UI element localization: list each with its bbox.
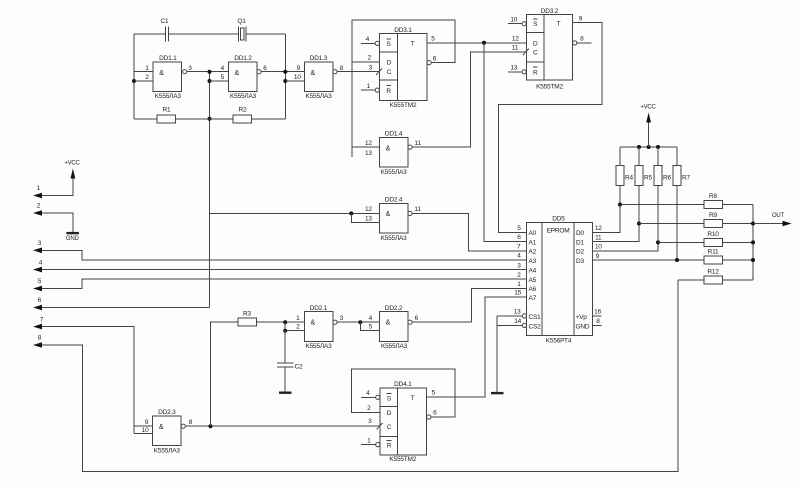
svg-text:5: 5	[38, 278, 42, 285]
svg-text:+VCC: +VCC	[640, 105, 656, 111]
svg-text:A0: A0	[529, 230, 537, 237]
wire right rail node	[283, 34, 304, 119]
svg-text:OUT: OUT	[772, 213, 785, 219]
pin 1 R input DD3.1	[361, 83, 379, 92]
svg-text:&: &	[386, 319, 391, 326]
pin 3 C input DD4.1	[368, 418, 382, 429]
svg-text:R8: R8	[709, 193, 717, 200]
svg-text:1: 1	[296, 315, 300, 322]
wire node A1: DD3.1 Q to EPROM A1	[484, 43, 527, 242]
svg-text:&: &	[386, 145, 391, 152]
wire DD2.3 output 8 to DD4.1 C	[185, 424, 380, 428]
svg-text:R2: R2	[239, 107, 247, 114]
svg-text:2: 2	[517, 272, 521, 279]
wire oscillator bottom rail	[134, 118, 285, 120]
wire DD4.1 output 5 to EPROM A7	[427, 297, 527, 397]
svg-text:9: 9	[297, 65, 301, 72]
svg-text:5: 5	[517, 225, 521, 232]
svg-text:4: 4	[221, 65, 225, 72]
pin 2 D input DD4.1	[367, 405, 371, 412]
pin 10 S input DD3.2	[508, 16, 526, 25]
svg-text:C1: C1	[161, 18, 169, 25]
connector pin 1 to +VCC	[33, 161, 81, 199]
svg-text:R6: R6	[663, 175, 671, 182]
svg-text:15: 15	[514, 290, 521, 297]
svg-text:12: 12	[365, 206, 372, 213]
svg-text:R9: R9	[709, 212, 717, 219]
svg-text:C: C	[387, 424, 392, 431]
wire R3 to DD2.1 inputs	[257, 320, 305, 333]
svg-text:9: 9	[145, 419, 149, 426]
svg-text:DD5: DD5	[552, 216, 565, 223]
resistor R9 row	[639, 212, 753, 228]
svg-text:4: 4	[369, 315, 373, 322]
svg-text:A2: A2	[529, 249, 537, 256]
svg-text:D2: D2	[576, 249, 584, 256]
svg-text:C2: C2	[295, 364, 303, 371]
svg-text:8: 8	[580, 36, 584, 43]
svg-text:A7: A7	[529, 295, 537, 302]
svg-text:CS1: CS1	[529, 314, 542, 321]
NAND gate DD1.1	[145, 55, 192, 100]
svg-text:&: &	[159, 424, 164, 431]
NAND gate DD2.1	[296, 305, 344, 350]
wire EPROM D1 (pin 11) to R5/R9 node	[593, 185, 642, 241]
svg-text:DD1.4: DD1.4	[385, 130, 403, 137]
connector pin 3 wire to EPROM A3	[33, 240, 527, 260]
svg-text:D: D	[387, 60, 392, 67]
svg-text:DD1.3: DD1.3	[310, 55, 328, 62]
svg-text:DD1.2: DD1.2	[234, 55, 252, 62]
svg-text:A3: A3	[529, 258, 537, 265]
svg-text:DD4.1: DD4.1	[394, 381, 412, 388]
svg-text:T: T	[411, 41, 415, 48]
svg-text:7: 7	[40, 316, 44, 323]
wire DD1.4 output 11 to DD3.2 C	[412, 52, 526, 147]
wire DD4.1 output 6 feedback to D	[352, 369, 456, 419]
svg-text:16: 16	[594, 309, 601, 316]
svg-text:K555ТМ2: K555ТМ2	[389, 456, 416, 463]
resistor R12 row	[678, 268, 753, 284]
svg-text:EPROM: EPROM	[547, 227, 570, 234]
svg-text:2: 2	[145, 74, 149, 81]
resistor R8 row	[620, 193, 753, 209]
svg-text:8: 8	[189, 419, 193, 426]
svg-text:D1: D1	[576, 239, 584, 246]
connector pin 7 wire to DD2.3 inputs	[33, 316, 134, 433]
svg-text:R10: R10	[707, 231, 719, 238]
svg-text:&: &	[235, 70, 240, 77]
svg-text:K555ЛА3: K555ЛА3	[154, 448, 181, 455]
resistor R11 row	[704, 249, 753, 265]
connector pin 4 wire to EPROM A4	[33, 259, 527, 272]
pin 13 R input DD3.2	[508, 65, 526, 74]
svg-text:DD3.2: DD3.2	[541, 8, 559, 15]
D flip-flop DD3.1	[380, 27, 428, 109]
svg-text:4: 4	[39, 259, 43, 266]
svg-text:6: 6	[433, 55, 437, 62]
svg-text:10: 10	[510, 16, 517, 23]
D flip-flop DD4.1	[380, 381, 427, 463]
wire DD2.3 inputs 9/10	[134, 426, 153, 434]
wire R3 branch from DD2.3 output	[211, 322, 239, 426]
svg-text:K555ЛА3: K555ЛА3	[381, 343, 408, 350]
svg-text:T: T	[411, 395, 415, 402]
svg-text:DD3.1: DD3.1	[394, 27, 412, 34]
svg-text:5: 5	[431, 36, 435, 43]
resistor R6	[654, 147, 671, 185]
wire DD3.1 output 6 feedback to D and DD1.4	[352, 20, 455, 157]
svg-text:&: &	[159, 70, 164, 77]
wire DD1.1 output 3	[187, 71, 229, 73]
svg-text:3: 3	[38, 240, 42, 247]
wire left rail node	[132, 34, 153, 119]
svg-text:3: 3	[340, 315, 344, 322]
svg-text:R: R	[533, 69, 538, 76]
svg-text:4: 4	[517, 253, 521, 260]
svg-text:8: 8	[340, 65, 344, 72]
ground symbol at EPROM CS	[491, 392, 504, 394]
svg-text:GND: GND	[66, 236, 80, 242]
svg-text:6: 6	[415, 315, 419, 322]
svg-text:A4: A4	[529, 267, 537, 274]
svg-text:11: 11	[414, 206, 421, 213]
svg-text:D0: D0	[576, 230, 584, 237]
wire DD1.4 inputs 12/13	[352, 146, 380, 148]
svg-text:DD2.3: DD2.3	[158, 409, 176, 416]
svg-text:2: 2	[296, 324, 300, 331]
svg-text:10: 10	[294, 74, 301, 81]
capacitor C2 to ground	[277, 331, 303, 394]
wire DD2.2 output 6 to EPROM A6	[412, 288, 526, 322]
svg-text:A6: A6	[529, 286, 537, 293]
pin 11 C input DD3.2	[512, 45, 529, 56]
wire DD2.4 output 11 to EPROM A2	[412, 213, 526, 250]
svg-text:10: 10	[142, 427, 149, 434]
svg-text:6: 6	[517, 234, 521, 241]
NAND gate DD2.2	[369, 305, 419, 350]
wire middle rail node	[208, 70, 229, 308]
EPROM address pin stubs and numbers	[512, 225, 527, 297]
svg-text:K555ЛА3: K555ЛА3	[155, 93, 182, 100]
wire EPROM D2 (pin 10) to R6/R10 node	[593, 185, 661, 251]
svg-text:R7: R7	[682, 175, 690, 182]
svg-text:T: T	[557, 21, 561, 28]
svg-text:R4: R4	[625, 175, 633, 182]
connector pin 6 wire to oscillator rail	[33, 297, 210, 310]
svg-text:1: 1	[367, 437, 371, 444]
svg-text:9: 9	[579, 15, 583, 22]
resistor R1	[157, 107, 176, 123]
resistor R7	[673, 147, 690, 185]
svg-text:9: 9	[596, 253, 600, 260]
resistor R10 row	[658, 231, 753, 247]
svg-text:K555ЛА3: K555ЛА3	[306, 343, 333, 350]
svg-text:Q1: Q1	[237, 18, 246, 25]
svg-text:R1: R1	[163, 107, 171, 114]
svg-text:&: &	[386, 211, 391, 218]
svg-text:+Vp: +Vp	[576, 314, 588, 321]
wire EPROM CS1/CS2 to ground	[497, 309, 526, 392]
wire EPROM D0 (pin 12) to R4/R8 node	[593, 185, 623, 232]
D flip-flop DD3.2	[526, 8, 572, 91]
wire output bus	[751, 205, 755, 280]
svg-text:10: 10	[595, 244, 602, 251]
svg-text:D: D	[387, 410, 392, 417]
svg-text:13: 13	[510, 65, 517, 72]
svg-text:DD2.4: DD2.4	[385, 196, 403, 203]
svg-text:13: 13	[514, 309, 521, 316]
crystal Q1	[237, 18, 246, 42]
svg-text:12: 12	[595, 225, 602, 232]
wire DD1.2 output 6	[261, 71, 304, 73]
svg-text:12: 12	[365, 140, 372, 147]
svg-text:R: R	[386, 88, 391, 95]
node OUT	[753, 213, 792, 226]
svg-text:GND: GND	[576, 323, 590, 330]
svg-text:2: 2	[367, 405, 371, 412]
NAND gate DD1.4	[365, 130, 421, 175]
svg-text:14: 14	[514, 318, 521, 325]
svg-text:12: 12	[512, 36, 519, 43]
svg-text:K555ЛА3: K555ЛА3	[381, 235, 408, 242]
svg-text:13: 13	[365, 215, 372, 222]
EPROM +Vp/GND pin stubs	[593, 309, 602, 326]
svg-text:A1: A1	[529, 239, 537, 246]
svg-text:3: 3	[517, 262, 521, 269]
svg-text:2: 2	[37, 203, 41, 210]
svg-text:R5: R5	[644, 175, 652, 182]
svg-text:CS2: CS2	[529, 323, 542, 330]
connector pin 2 to GND	[33, 203, 80, 242]
svg-text:DD2.2: DD2.2	[385, 305, 403, 312]
wire clock net to DD2.4 inputs	[210, 211, 380, 222]
svg-text:6: 6	[433, 410, 437, 417]
svg-text:11: 11	[595, 235, 602, 242]
wire DD2.1 output 3 to DD2.2 inputs	[337, 320, 379, 331]
svg-text:3: 3	[369, 65, 373, 72]
pin 2 D input DD3.1	[368, 55, 372, 62]
svg-text:D: D	[533, 40, 538, 47]
svg-text:DD2.1: DD2.1	[310, 305, 328, 312]
wire oscillator top loop (C1/Q1 net)	[134, 33, 285, 35]
svg-text:D3: D3	[576, 258, 584, 265]
svg-text:A5: A5	[529, 277, 537, 284]
resistor R5	[635, 147, 652, 185]
power +VCC arrow	[640, 105, 656, 148]
svg-text:11: 11	[414, 140, 421, 147]
svg-text:K555ЛА3: K555ЛА3	[381, 169, 408, 176]
svg-text:4: 4	[366, 390, 370, 397]
svg-text:C: C	[387, 69, 392, 76]
connector pin 5 wire to EPROM A5	[33, 278, 527, 291]
svg-text:2: 2	[368, 55, 372, 62]
connector pin 8 wire to R12	[33, 280, 678, 472]
svg-text:6: 6	[263, 65, 267, 72]
svg-text:5: 5	[221, 74, 225, 81]
svg-text:5: 5	[432, 390, 436, 397]
svg-text:13: 13	[365, 150, 372, 157]
svg-text:R3: R3	[243, 311, 251, 318]
svg-text:R11: R11	[708, 249, 719, 256]
resistor R3	[238, 311, 257, 327]
capacitor C1	[161, 18, 169, 42]
NAND gate DD1.3	[294, 55, 344, 100]
wire +VCC bus	[620, 145, 677, 149]
svg-text:R: R	[387, 443, 392, 450]
svg-text:K555ЛА3: K555ЛА3	[306, 93, 333, 100]
svg-text:3: 3	[188, 65, 192, 72]
svg-text:4: 4	[366, 36, 370, 43]
pin 4 S input DD4.1	[361, 390, 380, 399]
svg-text:C: C	[533, 50, 538, 57]
svg-text:3: 3	[368, 418, 372, 425]
svg-text:&: &	[311, 319, 316, 326]
resistor R4	[616, 147, 633, 185]
wire DD3.2 output 8 stub	[573, 36, 592, 45]
pin 1 R input DD4.1	[361, 437, 380, 446]
svg-text:5: 5	[369, 324, 373, 331]
wire DD3.1 output 5 to DD3.2 D (pin 12)	[427, 36, 526, 45]
NAND gate DD1.2	[221, 55, 268, 100]
svg-text:K556РТ4: K556РТ4	[546, 338, 572, 345]
svg-text:8: 8	[38, 335, 42, 342]
svg-text:1: 1	[37, 185, 41, 192]
pin 3 C input DD3.1	[369, 65, 382, 75]
wire DD1.3 output 8 to DD3.1 C	[337, 71, 379, 73]
svg-text:DD1.1: DD1.1	[159, 55, 177, 62]
NAND gate DD2.3	[142, 409, 193, 455]
svg-text:R12: R12	[707, 268, 719, 275]
svg-text:1: 1	[145, 65, 149, 72]
svg-text:8: 8	[596, 318, 600, 325]
resistor R2	[233, 107, 252, 123]
svg-text:1: 1	[367, 83, 371, 90]
svg-text:+VCC: +VCC	[64, 161, 80, 167]
EPROM DD5 K556РТ4	[527, 216, 593, 345]
pin 4 S input DD3.1	[361, 36, 379, 46]
wire EPROM D3 (pin 9) to R7/R11 node	[593, 185, 705, 262]
svg-text:K555ТМ2: K555ТМ2	[536, 84, 563, 91]
svg-text:K555ЛА3: K555ЛА3	[230, 93, 257, 100]
wire DD3.2 output 9 to EPROM A0	[498, 15, 602, 232]
svg-text:7: 7	[517, 244, 521, 251]
svg-text:K555ТМ2: K555ТМ2	[390, 102, 417, 109]
svg-text:&: &	[311, 70, 316, 77]
NAND gate DD2.4	[365, 196, 421, 241]
svg-text:6: 6	[38, 297, 42, 304]
svg-text:11: 11	[512, 45, 519, 52]
svg-text:1: 1	[517, 281, 521, 288]
